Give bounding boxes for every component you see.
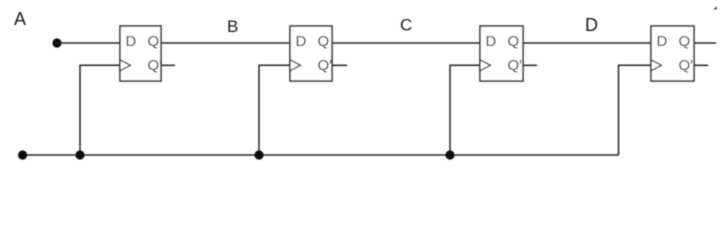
flip-flop U1: [120, 26, 162, 81]
wire clock to U2: [259, 65, 290, 155]
flip-flop U2: [290, 26, 332, 81]
node A input dot: [52, 38, 61, 47]
svg-text:Q: Q: [148, 33, 160, 50]
label output fragment (clipped at edge): [713, 6, 717, 10]
wire U2 Q' stub: [332, 64, 347, 66]
wire U4 Q output: [694, 42, 716, 44]
wire clock to U1: [80, 65, 120, 155]
svg-text:A: A: [14, 9, 26, 29]
svg-text:Q: Q: [508, 33, 520, 50]
flip-flop U4: [651, 26, 694, 81]
node junction dot clk1: [75, 150, 84, 159]
wire U1 Q to U2 D (net B): [161, 42, 290, 44]
svg-text:D: D: [657, 33, 668, 50]
node junction dot clk2: [254, 150, 263, 159]
svg-text:Q′: Q′: [508, 57, 523, 74]
svg-text:Q′: Q′: [318, 57, 333, 74]
wire U2 Q to U3 D (net C): [332, 42, 480, 44]
svg-text:B: B: [227, 17, 238, 36]
svg-text:D: D: [486, 33, 497, 50]
svg-text:Q′: Q′: [679, 57, 694, 74]
wire input A to U1 D: [57, 42, 120, 44]
flip-flop U3: [480, 26, 523, 81]
wire U1 Q' stub: [161, 64, 175, 66]
wire U4 Q' stub: [694, 64, 708, 66]
wire clock bus: [23, 154, 619, 156]
node clock terminal dot: [18, 150, 27, 159]
wire U3 Q' stub: [523, 64, 537, 66]
svg-text:D: D: [126, 33, 137, 50]
svg-text:Q: Q: [679, 33, 691, 50]
node junction dot clk3: [445, 150, 454, 159]
svg-text:Q′: Q′: [148, 57, 163, 74]
wire U3 Q to U4 D (net D): [523, 42, 651, 44]
wire clock to U4: [619, 65, 652, 155]
svg-text:D: D: [296, 33, 307, 50]
svg-text:Q: Q: [318, 33, 330, 50]
wire clock to U3: [450, 65, 480, 155]
svg-text:D: D: [585, 15, 598, 35]
svg-text:C: C: [400, 16, 412, 35]
